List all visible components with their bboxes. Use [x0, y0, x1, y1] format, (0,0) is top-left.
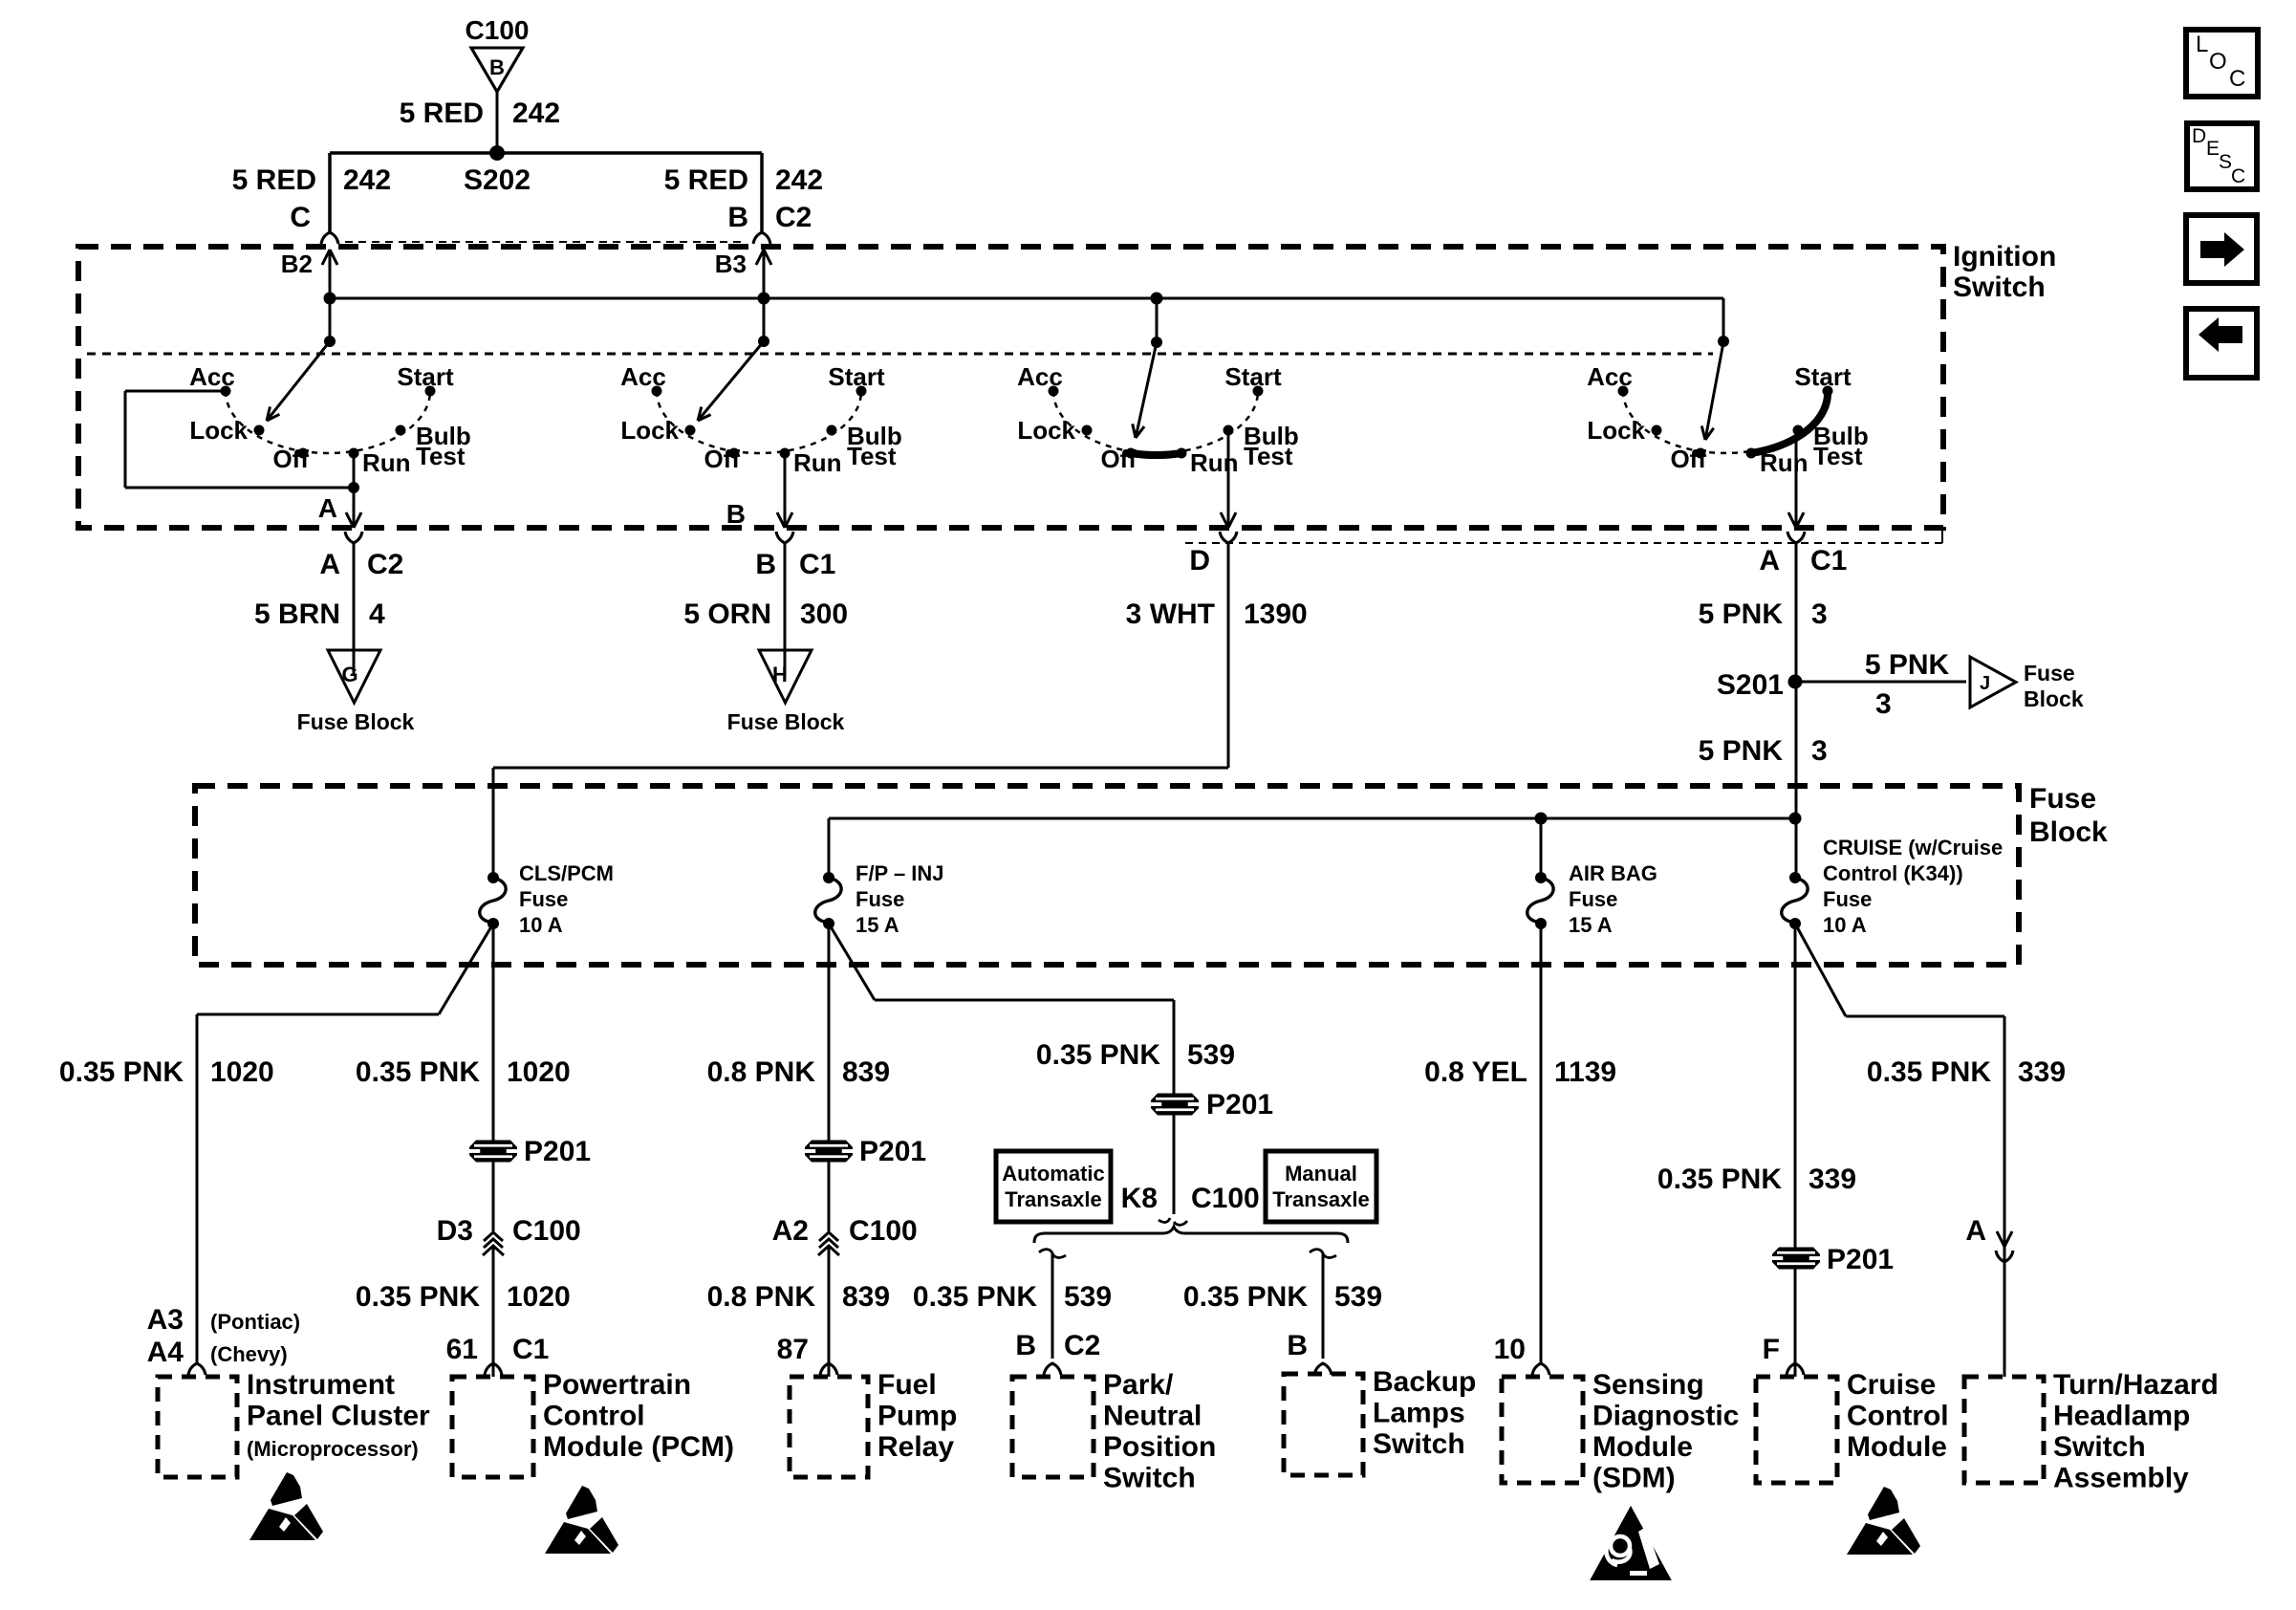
svg-text:0.35 PNK: 0.35 PNK — [1183, 1281, 1308, 1313]
svg-text:A3: A3 — [147, 1304, 184, 1336]
svg-text:Headlamp: Headlamp — [2053, 1401, 2190, 1432]
svg-text:Fuse: Fuse — [2024, 661, 2075, 685]
svg-text:CRUISE (w/Cruise: CRUISE (w/Cruise — [1823, 836, 2003, 859]
svg-text:Cruise: Cruise — [1847, 1369, 1936, 1401]
svg-text:Switch: Switch — [1373, 1428, 1465, 1460]
svg-text:B: B — [1015, 1330, 1036, 1361]
svg-text:300: 300 — [800, 598, 848, 630]
svg-text:Fuse: Fuse — [856, 887, 904, 911]
svg-text:Fuse: Fuse — [1823, 887, 1872, 911]
svg-text:5 RED: 5 RED — [400, 98, 484, 129]
svg-text:Start: Start — [1794, 362, 1852, 391]
svg-text:242: 242 — [775, 164, 823, 196]
svg-text:3 WHT: 3 WHT — [1126, 598, 1215, 630]
svg-text:CLS/PCM: CLS/PCM — [519, 861, 614, 885]
svg-text:10 A: 10 A — [1823, 913, 1867, 937]
svg-text:Off: Off — [1670, 445, 1706, 473]
svg-text:Transaxle: Transaxle — [1272, 1187, 1370, 1211]
svg-text:1020: 1020 — [210, 1056, 274, 1088]
svg-text:Block: Block — [2024, 686, 2084, 711]
svg-text:Transaxle: Transaxle — [1005, 1187, 1102, 1211]
svg-text:B: B — [726, 499, 746, 529]
svg-text:15 A: 15 A — [856, 913, 899, 937]
svg-text:5 ORN: 5 ORN — [683, 598, 771, 630]
svg-text:Park/: Park/ — [1103, 1369, 1174, 1401]
svg-text:1020: 1020 — [507, 1056, 571, 1088]
svg-text:10: 10 — [1494, 1334, 1526, 1365]
svg-text:Lock: Lock — [1017, 416, 1075, 445]
svg-text:A: A — [318, 493, 337, 523]
svg-text:87: 87 — [777, 1334, 809, 1365]
svg-text:Run: Run — [1190, 448, 1239, 477]
svg-text:10 A: 10 A — [519, 913, 563, 937]
svg-text:J: J — [1980, 673, 1990, 694]
svg-text:Acc: Acc — [189, 362, 235, 391]
svg-text:Backup: Backup — [1373, 1366, 1476, 1398]
svg-text:539: 539 — [1187, 1039, 1235, 1071]
svg-text:F/P – INJ: F/P – INJ — [856, 861, 944, 885]
svg-text:C100: C100 — [1191, 1183, 1260, 1214]
svg-text:1390: 1390 — [1244, 598, 1308, 630]
svg-text:Lock: Lock — [1587, 416, 1645, 445]
svg-text:C2: C2 — [367, 549, 403, 580]
svg-text:Switch: Switch — [1103, 1463, 1196, 1494]
svg-text:Start: Start — [828, 362, 885, 391]
svg-text:0.8 PNK: 0.8 PNK — [707, 1056, 816, 1088]
svg-text:242: 242 — [343, 164, 391, 196]
svg-text:539: 539 — [1064, 1281, 1112, 1313]
svg-text:A2: A2 — [772, 1215, 809, 1247]
svg-text:Run: Run — [362, 448, 411, 477]
svg-text:G: G — [341, 663, 357, 686]
svg-text:P201: P201 — [524, 1136, 591, 1167]
svg-text:0.35 PNK: 0.35 PNK — [356, 1281, 480, 1313]
svg-text:B: B — [489, 55, 505, 79]
svg-text:Control (K34)): Control (K34)) — [1823, 861, 1963, 885]
svg-text:Pump: Pump — [877, 1401, 957, 1432]
svg-text:Control: Control — [1847, 1401, 1949, 1432]
svg-text:B: B — [727, 202, 748, 233]
svg-text:P201: P201 — [1827, 1244, 1894, 1275]
svg-text:Position: Position — [1103, 1431, 1216, 1463]
svg-text:D: D — [2192, 125, 2206, 147]
svg-text:3: 3 — [1875, 688, 1892, 720]
svg-text:Turn/Hazard: Turn/Hazard — [2053, 1369, 2219, 1401]
svg-text:Lock: Lock — [620, 416, 679, 445]
svg-text:Module: Module — [1847, 1431, 1947, 1463]
svg-text:C1: C1 — [799, 549, 835, 580]
svg-text:(Pontiac): (Pontiac) — [210, 1310, 300, 1334]
svg-text:Lamps: Lamps — [1373, 1398, 1465, 1429]
svg-text:61: 61 — [446, 1334, 478, 1365]
svg-text:0.8 YEL: 0.8 YEL — [1424, 1056, 1527, 1088]
svg-text:Powertrain: Powertrain — [543, 1369, 691, 1401]
svg-text:Fuel: Fuel — [877, 1369, 937, 1401]
svg-text:Start: Start — [1224, 362, 1282, 391]
svg-text:5 RED: 5 RED — [664, 164, 748, 196]
svg-text:C: C — [2231, 165, 2245, 187]
svg-text:Test: Test — [1813, 442, 1863, 470]
svg-text:5 PNK: 5 PNK — [1865, 649, 1950, 681]
svg-text:0.35 PNK: 0.35 PNK — [1867, 1056, 1991, 1088]
svg-text:Test: Test — [416, 442, 466, 470]
svg-text:1139: 1139 — [1554, 1056, 1616, 1088]
svg-text:0.35 PNK: 0.35 PNK — [59, 1056, 184, 1088]
svg-text:5 RED: 5 RED — [232, 164, 316, 196]
svg-text:P201: P201 — [1206, 1089, 1273, 1120]
svg-text:839: 839 — [842, 1056, 890, 1088]
svg-text:839: 839 — [842, 1281, 890, 1313]
svg-text:D3: D3 — [437, 1215, 473, 1247]
svg-text:C100: C100 — [849, 1215, 918, 1247]
svg-text:Block: Block — [2029, 816, 2108, 848]
svg-text:Sensing: Sensing — [1592, 1369, 1704, 1401]
svg-text:1020: 1020 — [507, 1281, 571, 1313]
svg-text:Fuse Block: Fuse Block — [297, 709, 415, 734]
svg-text:0.8 PNK: 0.8 PNK — [707, 1281, 816, 1313]
svg-text:P201: P201 — [859, 1136, 926, 1167]
svg-text:5 BRN: 5 BRN — [254, 598, 340, 630]
svg-text:Acc: Acc — [1587, 362, 1633, 391]
svg-text:(Chevy): (Chevy) — [210, 1342, 288, 1366]
svg-text:0.35 PNK: 0.35 PNK — [1036, 1039, 1160, 1071]
svg-text:L: L — [2196, 32, 2208, 57]
svg-text:S201: S201 — [1717, 669, 1784, 701]
svg-text:C: C — [290, 202, 311, 233]
svg-text:E: E — [2206, 138, 2220, 160]
svg-text:Module (PCM): Module (PCM) — [543, 1431, 734, 1463]
svg-text:Acc: Acc — [620, 362, 666, 391]
svg-text:S: S — [2219, 151, 2232, 173]
svg-text:H: H — [772, 663, 788, 686]
svg-text:C: C — [2229, 66, 2245, 92]
svg-text:Lock: Lock — [189, 416, 248, 445]
svg-text:539: 539 — [1334, 1281, 1382, 1313]
svg-text:F: F — [1763, 1334, 1780, 1365]
svg-text:Control: Control — [543, 1401, 645, 1432]
svg-text:3: 3 — [1811, 735, 1828, 767]
svg-text:(Microprocessor): (Microprocessor) — [247, 1437, 419, 1461]
svg-text:Diagnostic: Diagnostic — [1592, 1401, 1739, 1432]
svg-text:Test: Test — [1244, 442, 1293, 470]
svg-text:Acc: Acc — [1017, 362, 1063, 391]
svg-text:C1: C1 — [512, 1334, 549, 1365]
svg-text:A4: A4 — [147, 1337, 184, 1368]
svg-text:0.35 PNK: 0.35 PNK — [356, 1056, 480, 1088]
svg-text:A: A — [319, 549, 340, 580]
svg-text:Fuse: Fuse — [1569, 887, 1617, 911]
svg-text:Off: Off — [1100, 445, 1137, 473]
svg-text:242: 242 — [512, 98, 560, 129]
svg-text:Neutral: Neutral — [1103, 1401, 1202, 1432]
svg-text:Run: Run — [793, 448, 842, 477]
svg-text:Ignition: Ignition — [1953, 241, 2056, 272]
svg-text:Automatic: Automatic — [1002, 1162, 1105, 1186]
svg-text:Panel Cluster: Panel Cluster — [247, 1401, 430, 1432]
svg-text:339: 339 — [1809, 1164, 1856, 1195]
svg-text:C2: C2 — [775, 202, 812, 233]
svg-text:Fuse Block: Fuse Block — [727, 709, 845, 734]
svg-text:4: 4 — [369, 598, 385, 630]
svg-text:Test: Test — [847, 442, 897, 470]
svg-text:5 PNK: 5 PNK — [1699, 598, 1784, 630]
svg-text:S202: S202 — [464, 164, 531, 196]
svg-text:Switch: Switch — [2053, 1431, 2146, 1463]
svg-text:15 A: 15 A — [1569, 913, 1613, 937]
svg-text:AIR BAG: AIR BAG — [1569, 861, 1657, 885]
svg-text:K8: K8 — [1121, 1183, 1158, 1214]
svg-text:C2: C2 — [1064, 1330, 1100, 1361]
svg-text:A: A — [1759, 545, 1780, 577]
svg-text:Start: Start — [397, 362, 454, 391]
svg-text:Off: Off — [272, 445, 309, 473]
svg-text:Off: Off — [704, 445, 740, 473]
svg-text:Module: Module — [1592, 1431, 1693, 1463]
svg-text:Fuse: Fuse — [519, 887, 568, 911]
svg-text:B: B — [1287, 1330, 1308, 1361]
svg-text:339: 339 — [2018, 1056, 2066, 1088]
svg-text:C100: C100 — [466, 15, 530, 45]
svg-text:A: A — [1965, 1215, 1986, 1247]
svg-text:C100: C100 — [512, 1215, 581, 1247]
svg-text:C1: C1 — [1810, 545, 1847, 577]
svg-text:B2: B2 — [281, 250, 313, 278]
svg-text:B3: B3 — [715, 250, 747, 278]
svg-text:Relay: Relay — [877, 1431, 954, 1463]
svg-text:(SDM): (SDM) — [1592, 1463, 1676, 1494]
svg-text:Switch: Switch — [1953, 272, 2046, 303]
svg-text:D: D — [1189, 545, 1210, 577]
svg-text:Fuse: Fuse — [2029, 783, 2096, 815]
svg-text:0.35 PNK: 0.35 PNK — [1657, 1164, 1782, 1195]
svg-text:3: 3 — [1811, 598, 1828, 630]
svg-text:Assembly: Assembly — [2053, 1463, 2189, 1494]
svg-text:0.35 PNK: 0.35 PNK — [913, 1281, 1037, 1313]
svg-text:Instrument: Instrument — [247, 1369, 395, 1401]
svg-text:5 PNK: 5 PNK — [1699, 735, 1784, 767]
svg-text:B: B — [755, 549, 776, 580]
svg-text:Manual: Manual — [1285, 1162, 1357, 1186]
svg-text:O: O — [2209, 49, 2227, 75]
